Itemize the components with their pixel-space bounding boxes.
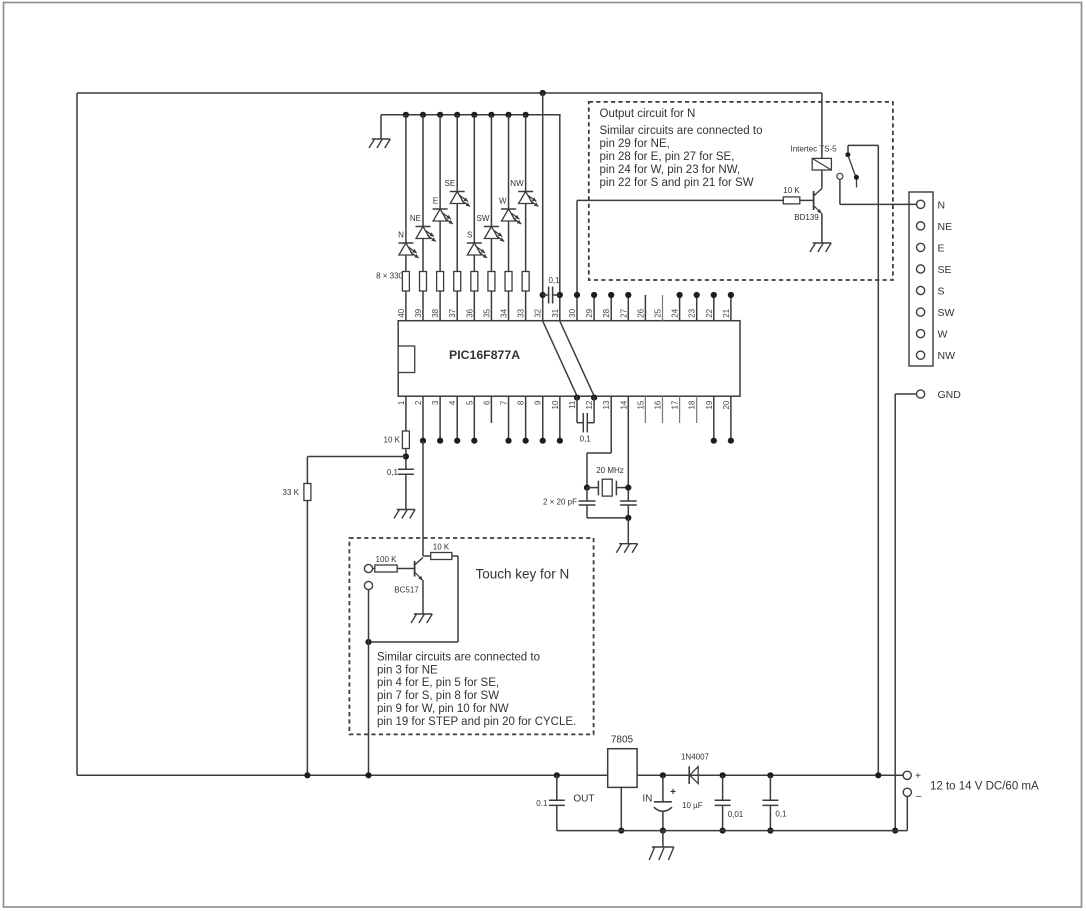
ground (crystal) [619,543,638,545]
node cap 0,1 in top [767,772,773,778]
svg-text:34: 34 [500,308,509,317]
svg-text:GND: GND [938,389,962,401]
ground (BC517) [414,613,433,615]
diode 1N4007 [688,766,690,784]
node pin 29 [591,292,597,298]
LED S [467,243,487,258]
node cap 0,01 top [720,772,726,778]
wire pin 20 stub [730,396,732,441]
resistor 33 K [304,484,311,501]
node crystal right [625,485,631,491]
crystal 20 MHz [587,487,598,489]
resistor 10 K (output) [783,197,800,204]
svg-text:N: N [938,199,946,211]
node cap 0,1 in bottom [767,828,773,834]
text similar circuits (output) [600,125,763,189]
node pin 3 [437,438,443,444]
node pin 4 [454,438,460,444]
wire pin 11 stub [576,396,578,423]
node junction LED bus col SW [488,112,494,118]
node junction LED bus col E [437,112,443,118]
wire pin 2 to BC517 collector [422,441,424,556]
svg-text:14: 14 [619,400,628,409]
svg-text:9: 9 [534,400,543,405]
svg-text:+: + [915,771,921,782]
capacitor 0.1 (7805 out) [556,775,558,800]
wire 10K to right drop [452,555,458,557]
wire internal diagonal pin31-pin12 [560,321,594,396]
connector pin NE [917,222,925,230]
terminal + input [903,771,911,779]
wire resistor to pin col E [439,291,441,321]
svg-text:0.1: 0.1 [536,799,548,808]
svg-text:12 to 14 V DC/60 mA: 12 to 14 V DC/60 mA [930,781,1039,793]
wire +12V rail (7805 IN to + terminal) [637,774,903,776]
wire pin 14 to crystal [627,396,629,501]
svg-text:NW: NW [510,179,524,188]
svg-text:30: 30 [568,308,577,317]
wire bus to LED NW [525,115,527,192]
capacitor 20 pF right [620,500,637,502]
capacitor 0,1 decoupling pins 32-31 [543,294,549,296]
resistor 330 col S [471,272,478,292]
wire bottom +5V rail (frame to 7805 OUT) [77,774,608,776]
touch pad terminal 2 [364,581,372,589]
svg-text:pin 3 for NE: pin 3 for NE [377,664,438,676]
node 7805 gnd [618,828,624,834]
node 10uF top [660,772,666,778]
node junction LED bus col W [505,112,511,118]
svg-text:15: 15 [636,400,645,409]
wire pin 27 stub [627,295,629,321]
wire bus to LED SW [490,115,492,227]
svg-text:40: 40 [397,308,406,317]
svg-text:Similar circuits are connected: Similar circuits are connected to [600,125,763,137]
capacitor 0,1 pins 11-12 [577,422,583,424]
node pin 8 [523,438,529,444]
svg-text:–: – [916,791,922,802]
LED W [501,209,521,224]
svg-text:W: W [499,197,507,206]
svg-text:11: 11 [568,400,577,409]
resistor 330 col N [402,272,409,292]
node junction top rail VDD feed [540,90,546,96]
svg-text:pin 4 for E, pin 5 for SE,: pin 4 for E, pin 5 for SE, [377,677,499,689]
node relay +12V junction [875,772,881,778]
node pin 19 [711,438,717,444]
svg-text:Output circuit for N: Output circuit for N [600,108,696,120]
svg-text:7805: 7805 [611,735,634,746]
node pin 28 [608,292,614,298]
node pin 23 [694,292,700,298]
svg-text:100 K: 100 K [376,555,398,564]
svg-text:6: 6 [482,400,491,405]
wire pin 26 stub [644,295,646,321]
capacitor 20 pF left [586,488,588,501]
wire pin 17 stub [679,396,681,423]
resistor 330 col W [505,272,512,292]
resistor 330 col SW [488,272,495,292]
transistor BD139 [813,191,815,210]
svg-text:pin 19 for STEP and pin 20 for: pin 19 for STEP and pin 20 for CYCLE. [377,716,576,728]
wire resistor to pin col NW [525,291,527,321]
wire pin 7 stub [508,396,510,441]
relay contact blade dot [854,175,859,180]
svg-text:37: 37 [448,308,457,317]
wire pin 29 stub [593,295,595,321]
svg-text:33 K: 33 K [283,488,300,497]
wire relay contact top [848,144,878,146]
terminal - input [903,788,911,796]
svg-text:12: 12 [585,400,594,409]
svg-text:2: 2 [414,400,423,405]
wire pin 30 to output circuit [576,200,578,321]
node junction LED bus col N [403,112,409,118]
resistor 330 col SE [454,272,461,292]
wire pin 18 stub [696,396,698,423]
LED N [398,243,418,258]
node junction LED bus col NE [420,112,426,118]
wire NO contact to N output [839,179,841,204]
svg-text:E: E [433,197,438,206]
wire pin 19 stub [713,396,715,441]
wire BD139 emitter to ground [820,212,823,215]
svg-text:8 × 330: 8 × 330 [376,272,403,281]
wire pin 22 stub [713,295,715,321]
node pin 22 [711,292,717,298]
relay NO contact [837,173,843,179]
wire resistor to pin col SW [490,291,492,321]
wire 10K to BD139 base [800,199,814,201]
wire LED NW to resistor [525,204,527,272]
svg-text:10 K: 10 K [433,543,450,552]
relay contact pivot [845,152,850,157]
wire +5V top rail [77,92,822,94]
node caps common [625,515,631,521]
connector pin E [917,243,925,251]
node pin 24 [677,292,683,298]
svg-text:23: 23 [688,308,697,317]
text similar circuits (touch) [377,651,576,728]
svg-text:NE: NE [410,214,421,223]
touch pad terminal 1 [364,564,372,572]
wire supply ground stub [662,831,664,847]
IC notch marker [398,346,415,373]
capacitor 0,1 (pin 1) [398,468,414,470]
LED SE [450,192,470,207]
svg-text:18: 18 [688,400,697,409]
svg-text:0,1: 0,1 [548,276,560,285]
wire internal diagonal pin32-pin11 [543,321,577,396]
node pin 12 [591,395,597,401]
svg-text:Intertec TS-5: Intertec TS-5 [791,145,838,154]
wire LED S to resistor [473,255,475,272]
node junction VSS cap [557,292,563,298]
dashed box Touch key for N [349,538,593,734]
wire bus to LED SE [456,115,458,192]
resistor 10 K (pin 1) [402,431,409,449]
wire cap to ground [405,474,407,509]
svg-text:4: 4 [448,400,457,405]
svg-text:pin 22 for S and pin 21 for SW: pin 22 for S and pin 21 for SW [600,177,754,189]
wire pin 13 to crystal [610,396,612,453]
dashed box Output circuit for N [589,102,893,280]
wire resistor to pin col SE [456,291,458,321]
wire resistor to pin col NE [422,291,424,321]
resistor 330 col NE [420,272,427,292]
wire ground stub of LED bus [380,115,382,139]
node pin 27 [625,292,631,298]
svg-text:+: + [670,787,676,798]
svg-text:29: 29 [585,308,594,317]
svg-text:S: S [938,286,945,298]
svg-text:1: 1 [397,400,406,405]
wire resistor to cap [405,449,407,470]
svg-text:20: 20 [722,400,731,409]
svg-text:pin 29 for NE,: pin 29 for NE, [600,138,670,150]
svg-text:7: 7 [500,400,509,405]
svg-text:5: 5 [465,400,474,405]
connector pin S [917,286,925,294]
node touch +5 junction [365,639,371,645]
node junction LED bus col S [471,112,477,118]
node pin 20 [728,438,734,444]
IC PIC16F877A body [398,321,740,397]
node junction LED bus col SE [454,112,460,118]
svg-text:8: 8 [517,400,526,405]
node pin 2 [420,438,426,444]
ground (LED bus) [372,138,391,140]
wire 33K top lead [306,457,308,484]
wire GND terminal [895,393,916,395]
ground (BD139) [813,242,832,244]
wire LED cathode bus [381,114,561,116]
wire bus to LED S [473,115,475,243]
svg-text:OUT: OUT [573,794,594,805]
svg-text:10 K: 10 K [783,186,800,195]
connector pin SW [917,308,925,316]
svg-text:N: N [398,231,404,240]
svg-text:22: 22 [705,308,714,317]
wire pin1 node to 33K [307,456,406,458]
node pin 7 [505,438,511,444]
resistor 330 col NW [522,272,529,292]
svg-text:38: 38 [431,308,440,317]
node 10uF bottom [660,828,666,834]
wire pin 9 stub [542,396,544,441]
svg-text:W: W [938,329,948,341]
svg-text:NW: NW [938,350,956,362]
wire pin 12 stub [593,396,595,423]
regulator 7805 [608,749,637,788]
connector pin W [917,330,925,338]
node pin 5 [471,438,477,444]
node GND bottom junction [892,828,898,834]
svg-text:pin 7 for S, pin 8 for SW: pin 7 for S, pin 8 for SW [377,690,499,702]
wire collector to 10K [423,555,431,557]
svg-text:pin 9 for W, pin 10 for NW: pin 9 for W, pin 10 for NW [377,703,509,715]
wire pin 2 stub [422,396,424,441]
svg-text:3: 3 [431,400,440,405]
wire pin 6 stub [490,396,492,423]
svg-text:2 × 20 pF: 2 × 20 pF [543,498,577,507]
wire pin 28 stub [610,295,612,321]
ground (power supply) [652,846,674,848]
wire pin 21 stub [730,295,732,321]
wire VSS feed pin 31 [559,115,561,321]
svg-text:32: 32 [534,308,543,317]
wire LED SW to resistor [490,239,492,272]
svg-text:SE: SE [938,264,952,276]
wire relay common to +12V rail [877,145,879,775]
svg-text:39: 39 [414,308,423,317]
node pin 30 [574,292,580,298]
svg-text:17: 17 [671,400,680,409]
svg-text:Similar circuits are connected: Similar circuits are connected to [377,651,540,663]
svg-text:SW: SW [938,307,955,319]
node crystal left [584,485,590,491]
wire resistor to pin col N [405,291,407,321]
wire pin 3 stub [439,396,441,441]
LED E [433,209,453,224]
wire LED W to resistor [508,221,510,272]
connector pin NW [917,351,925,359]
resistor 10 K (touch) [431,553,452,560]
svg-text:19: 19 [705,400,714,409]
resistor 100 K [375,565,397,572]
svg-text:21: 21 [722,308,731,317]
node pin 11 [574,395,580,401]
LED NE [416,227,436,242]
wire pad1 to 100K [372,568,375,570]
pin numbers bottom 1-20 [397,400,731,409]
wire 7805 gnd pin [620,787,622,830]
capacitor 0,1 (input) [769,775,771,800]
connector pin GND [917,390,925,398]
wire pin 16 stub [661,396,663,423]
wire LED NE to resistor [422,239,424,272]
svg-text:BC517: BC517 [394,586,419,595]
wire crystal ground stub [627,518,629,544]
svg-text:S: S [467,231,472,240]
svg-text:0,1: 0,1 [387,468,399,477]
svg-text:20 MHz: 20 MHz [596,466,624,475]
wire resistor to pin col W [508,291,510,321]
svg-text:33: 33 [517,308,526,317]
node pin 9 [540,438,546,444]
svg-text:pin 24 for W, pin 23 for NW,: pin 24 for W, pin 23 for NW, [600,164,741,176]
wire 100K to base [397,568,414,570]
svg-text:0,1: 0,1 [775,810,787,819]
svg-text:10 K: 10 K [384,436,401,445]
wire pin 8 stub [525,396,527,441]
wire pin 23 stub [696,295,698,321]
svg-text:Touch key for N: Touch key for N [476,567,570,582]
svg-text:SW: SW [477,214,490,223]
LED SW [484,227,504,242]
svg-text:28: 28 [602,308,611,317]
wire LED N to resistor [405,255,407,272]
wire pin 25 stub [662,295,664,321]
wire pin 15 stub [644,396,646,423]
svg-text:10: 10 [551,400,560,409]
node 33K rail junction [304,772,310,778]
wire caps common [587,517,628,519]
node pin 10 [557,438,563,444]
wire LED SE to resistor [456,204,458,272]
node cap 0,01 bottom [720,828,726,834]
node touch rail junction [365,772,371,778]
wire BC517 emitter to ground [422,579,424,581]
LED NW [518,192,538,207]
wire - terminal to ground rail [906,796,908,831]
wire LED E to resistor [439,221,441,272]
svg-text:25: 25 [653,308,662,317]
svg-text:10 µF: 10 µF [682,801,703,810]
svg-text:1N4007: 1N4007 [681,753,710,762]
svg-text:BD139: BD139 [794,213,819,222]
wire pin 24 stub [679,295,681,321]
node pin 21 [728,292,734,298]
wire ground rail [557,830,908,832]
connector pin N [917,200,925,208]
ground (pin 1 cap) [397,509,416,511]
pin numbers top 40-21 [397,308,731,317]
svg-text:35: 35 [482,308,491,317]
wire touch pad2 to rail [368,589,370,775]
connector pin SE [917,265,925,273]
svg-text:NE: NE [938,221,953,233]
svg-text:13: 13 [602,400,611,409]
svg-text:E: E [938,242,945,254]
resistor 330 col E [437,272,444,292]
svg-text:0,1: 0,1 [580,435,592,444]
wire pin 5 stub [473,396,475,441]
wire relay coil to +5V rail [821,93,823,158]
svg-text:IN: IN [642,794,652,805]
node junction VDD cap [540,292,546,298]
svg-text:0,01: 0,01 [728,810,744,819]
wire pin 1 to resistor [405,396,407,431]
wire 33K to +5V rail [306,501,308,776]
svg-text:31: 31 [551,308,560,317]
wire VDD feed pin 32 [542,93,544,321]
connector block [909,192,933,366]
svg-text:24: 24 [671,308,680,317]
wire bus to LED NE [422,115,424,227]
relay coil Intertec TS-5 [812,158,831,170]
svg-text:PIC16F877A: PIC16F877A [449,348,520,362]
svg-text:36: 36 [465,308,474,317]
node pin1/33K junction [403,453,409,459]
wire left +5V rail [76,93,78,775]
wire BD139 collector to relay coil [821,170,823,189]
svg-text:27: 27 [619,308,628,317]
svg-text:26: 26 [636,308,645,317]
transistor BC517 [414,561,416,577]
wire bus to LED N [405,115,407,243]
svg-text:16: 16 [653,400,662,409]
capacitor 0,01 [722,775,724,800]
wire bus to LED E [439,115,441,209]
wire bus to LED W [508,115,510,209]
wire resistor to pin col S [473,291,475,321]
node cap 0.1 out top [554,772,560,778]
node junction LED bus col NW [523,112,529,118]
relay contact blade [848,156,856,179]
wire pin 10 stub [559,396,561,441]
svg-text:pin 28 for E, pin 27 for SE,: pin 28 for E, pin 27 for SE, [600,151,735,163]
